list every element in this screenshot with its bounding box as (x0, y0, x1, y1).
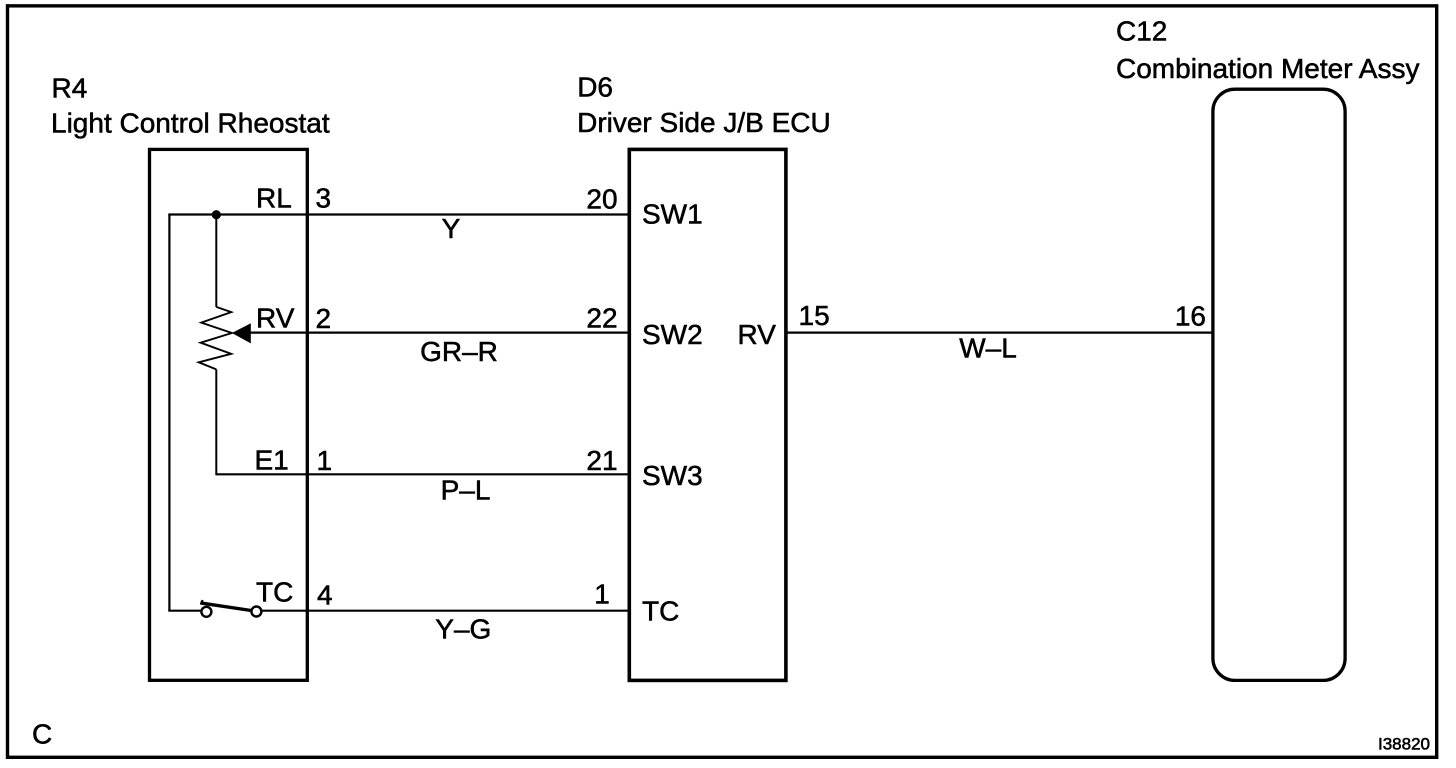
wire node to resistor top (215, 215, 217, 308)
svg-text:W–L: W–L (959, 333, 1017, 364)
switch contact left (201, 607, 211, 617)
svg-text:E1: E1 (255, 444, 289, 475)
svg-text:TC: TC (642, 596, 679, 627)
svg-text:I38820: I38820 (1378, 734, 1430, 753)
svg-text:TC: TC (256, 577, 293, 608)
combination meter C12 box (1213, 89, 1345, 680)
svg-text:SW1: SW1 (642, 198, 703, 229)
wire TC stub left (168, 610, 201, 612)
svg-text:16: 16 (1175, 301, 1206, 332)
svg-text:RV: RV (256, 303, 295, 334)
svg-text:Y–G: Y–G (435, 614, 491, 645)
svg-text:C12: C12 (1116, 16, 1167, 47)
wire Y-G row TC-TC (262, 610, 630, 612)
svg-text:21: 21 (586, 445, 617, 476)
wire W-L row RV-16 (786, 332, 1213, 334)
svg-text:4: 4 (317, 580, 333, 611)
svg-text:Driver Side J/B ECU: Driver Side J/B ECU (577, 107, 831, 138)
wire GR-R row RV-SW2 (251, 332, 630, 334)
wire resistor bottom to E1 (215, 369, 217, 475)
svg-text:RV: RV (738, 319, 777, 350)
switch blade (200, 603, 251, 611)
resistor zigzag of rheostat (199, 307, 232, 370)
svg-text:C: C (32, 719, 52, 750)
wiper arrow of rheostat (232, 323, 251, 343)
svg-text:SW2: SW2 (642, 319, 703, 350)
svg-text:Light Control Rheostat: Light Control Rheostat (51, 108, 330, 139)
svg-text:15: 15 (799, 300, 830, 331)
svg-text:1: 1 (317, 445, 333, 476)
svg-text:Y: Y (442, 213, 461, 244)
rheostat R4 box (150, 149, 308, 680)
svg-text:P–L: P–L (441, 474, 491, 505)
svg-text:1: 1 (594, 579, 610, 610)
svg-text:20: 20 (586, 184, 617, 215)
svg-text:Combination Meter Assy: Combination Meter Assy (1116, 53, 1419, 84)
switch blade end tick (201, 600, 203, 604)
wire Y row RL-SW1 (168, 213, 629, 215)
wire P-L row E1-SW3 (216, 473, 629, 475)
svg-text:D6: D6 (577, 72, 613, 103)
switch contact right (251, 607, 261, 617)
svg-text:R4: R4 (52, 73, 88, 104)
svg-text:2: 2 (316, 303, 332, 334)
svg-text:3: 3 (316, 183, 332, 214)
svg-text:SW3: SW3 (642, 460, 703, 491)
svg-text:RL: RL (256, 183, 292, 214)
svg-text:22: 22 (586, 303, 617, 334)
node junction dot RL (212, 210, 221, 219)
wire left vertical in R4 (168, 215, 170, 611)
ECU D6 box (629, 149, 786, 680)
svg-text:GR–R: GR–R (420, 336, 498, 367)
